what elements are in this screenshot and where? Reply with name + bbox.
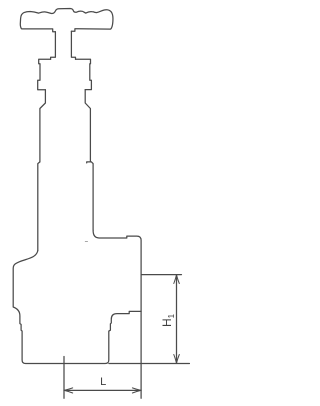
stem bushing (hub and collar) [51,31,76,59]
L right extension [140,311,142,398]
H1 dimension line [176,275,178,363]
base extension line [109,363,190,365]
H1 extension line [142,274,182,276]
spring chamber tube [38,162,93,251]
svg-text:H1: H1 [160,313,176,327]
L left arrow [64,388,73,393]
L right arrow [132,388,141,393]
joint tick on spring chamber right [87,162,91,163]
L dimension line [64,389,141,391]
handwheel (scalloped knob) [20,9,113,32]
valve body with flanges and base [13,230,141,363]
H1 top arrow [174,275,180,284]
weld tick at tube-body junction [85,240,87,242]
gland flange and packing nut [38,59,92,90]
L left extension (centerline) [63,357,65,399]
svg-text:L: L [100,376,106,388]
bonnet neck (waist, chamfer, upper tube) [40,90,91,162]
H1 bottom arrow [174,355,180,364]
